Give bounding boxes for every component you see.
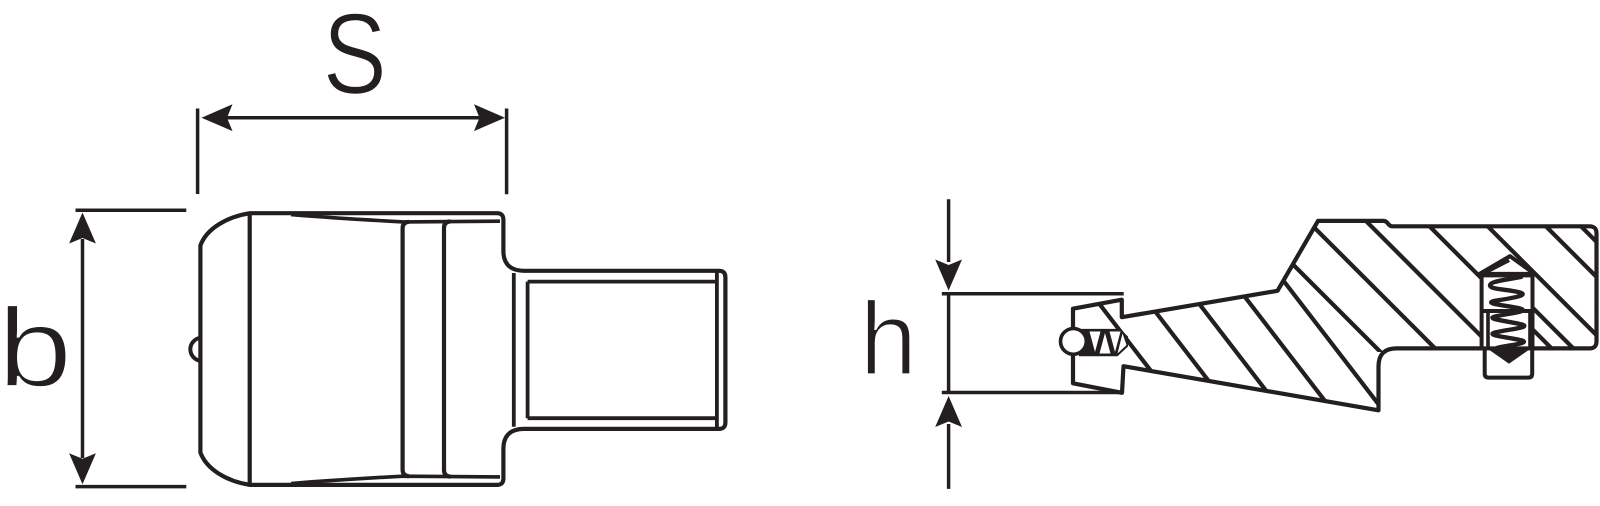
pin lower block xyxy=(1485,348,1533,377)
bottom shoulder line xyxy=(291,476,500,483)
dimension line xyxy=(224,116,482,120)
svg-text:S: S xyxy=(323,0,387,119)
pocket divider xyxy=(1482,309,1533,313)
dimension line xyxy=(81,239,85,458)
top shoulder line xyxy=(291,215,500,222)
extension line bottom xyxy=(942,391,1124,395)
svg-text:h: h xyxy=(860,281,918,397)
square drive edge vertical xyxy=(512,273,516,427)
extension line top xyxy=(942,292,1124,296)
extension line bottom xyxy=(76,485,187,489)
hatch stub top-right corner xyxy=(1581,226,1597,242)
cap fold line xyxy=(1485,261,1510,274)
pin arrow (down) xyxy=(1487,348,1531,364)
dimension line vertical xyxy=(947,199,951,489)
front chamfer vertical line xyxy=(248,214,252,484)
square drive chamfer rectangle xyxy=(528,272,717,429)
extension line right xyxy=(505,109,509,195)
adapter body outline (front view) xyxy=(200,213,725,485)
h dimension arrowhead bottom (pointing up) xyxy=(935,396,962,427)
S dimension arrowhead left xyxy=(202,104,233,131)
S dimension arrowhead right xyxy=(474,104,505,131)
groove ring line 2 xyxy=(444,221,450,476)
pocket inner walls xyxy=(1488,311,1530,348)
pin spring (vertical zigzag) xyxy=(1490,277,1524,348)
svg-text:b: b xyxy=(0,285,72,410)
detent ball xyxy=(1061,329,1087,355)
h dimension arrowhead top (pointing down) xyxy=(935,260,962,291)
ball detent bump on left face xyxy=(190,338,200,361)
spring pin pocket: white eraser xyxy=(1482,274,1533,349)
b dimension arrowhead top xyxy=(69,213,96,244)
hatching block (45 deg) xyxy=(1229,200,1600,430)
extension line top xyxy=(76,208,187,212)
groove ring line 1 xyxy=(403,222,409,476)
hatch stub right of spring pocket xyxy=(1533,226,1597,348)
hatching neck/claw (52 deg) xyxy=(1073,270,1398,430)
extension line left xyxy=(196,109,200,195)
detent ball spring (horizontal coil band) xyxy=(1079,329,1128,356)
pocket outer walls xyxy=(1482,275,1533,348)
section body outline xyxy=(1073,221,1597,410)
b dimension arrowhead bottom xyxy=(69,453,96,484)
pin cap (pointed top) xyxy=(1480,256,1535,274)
